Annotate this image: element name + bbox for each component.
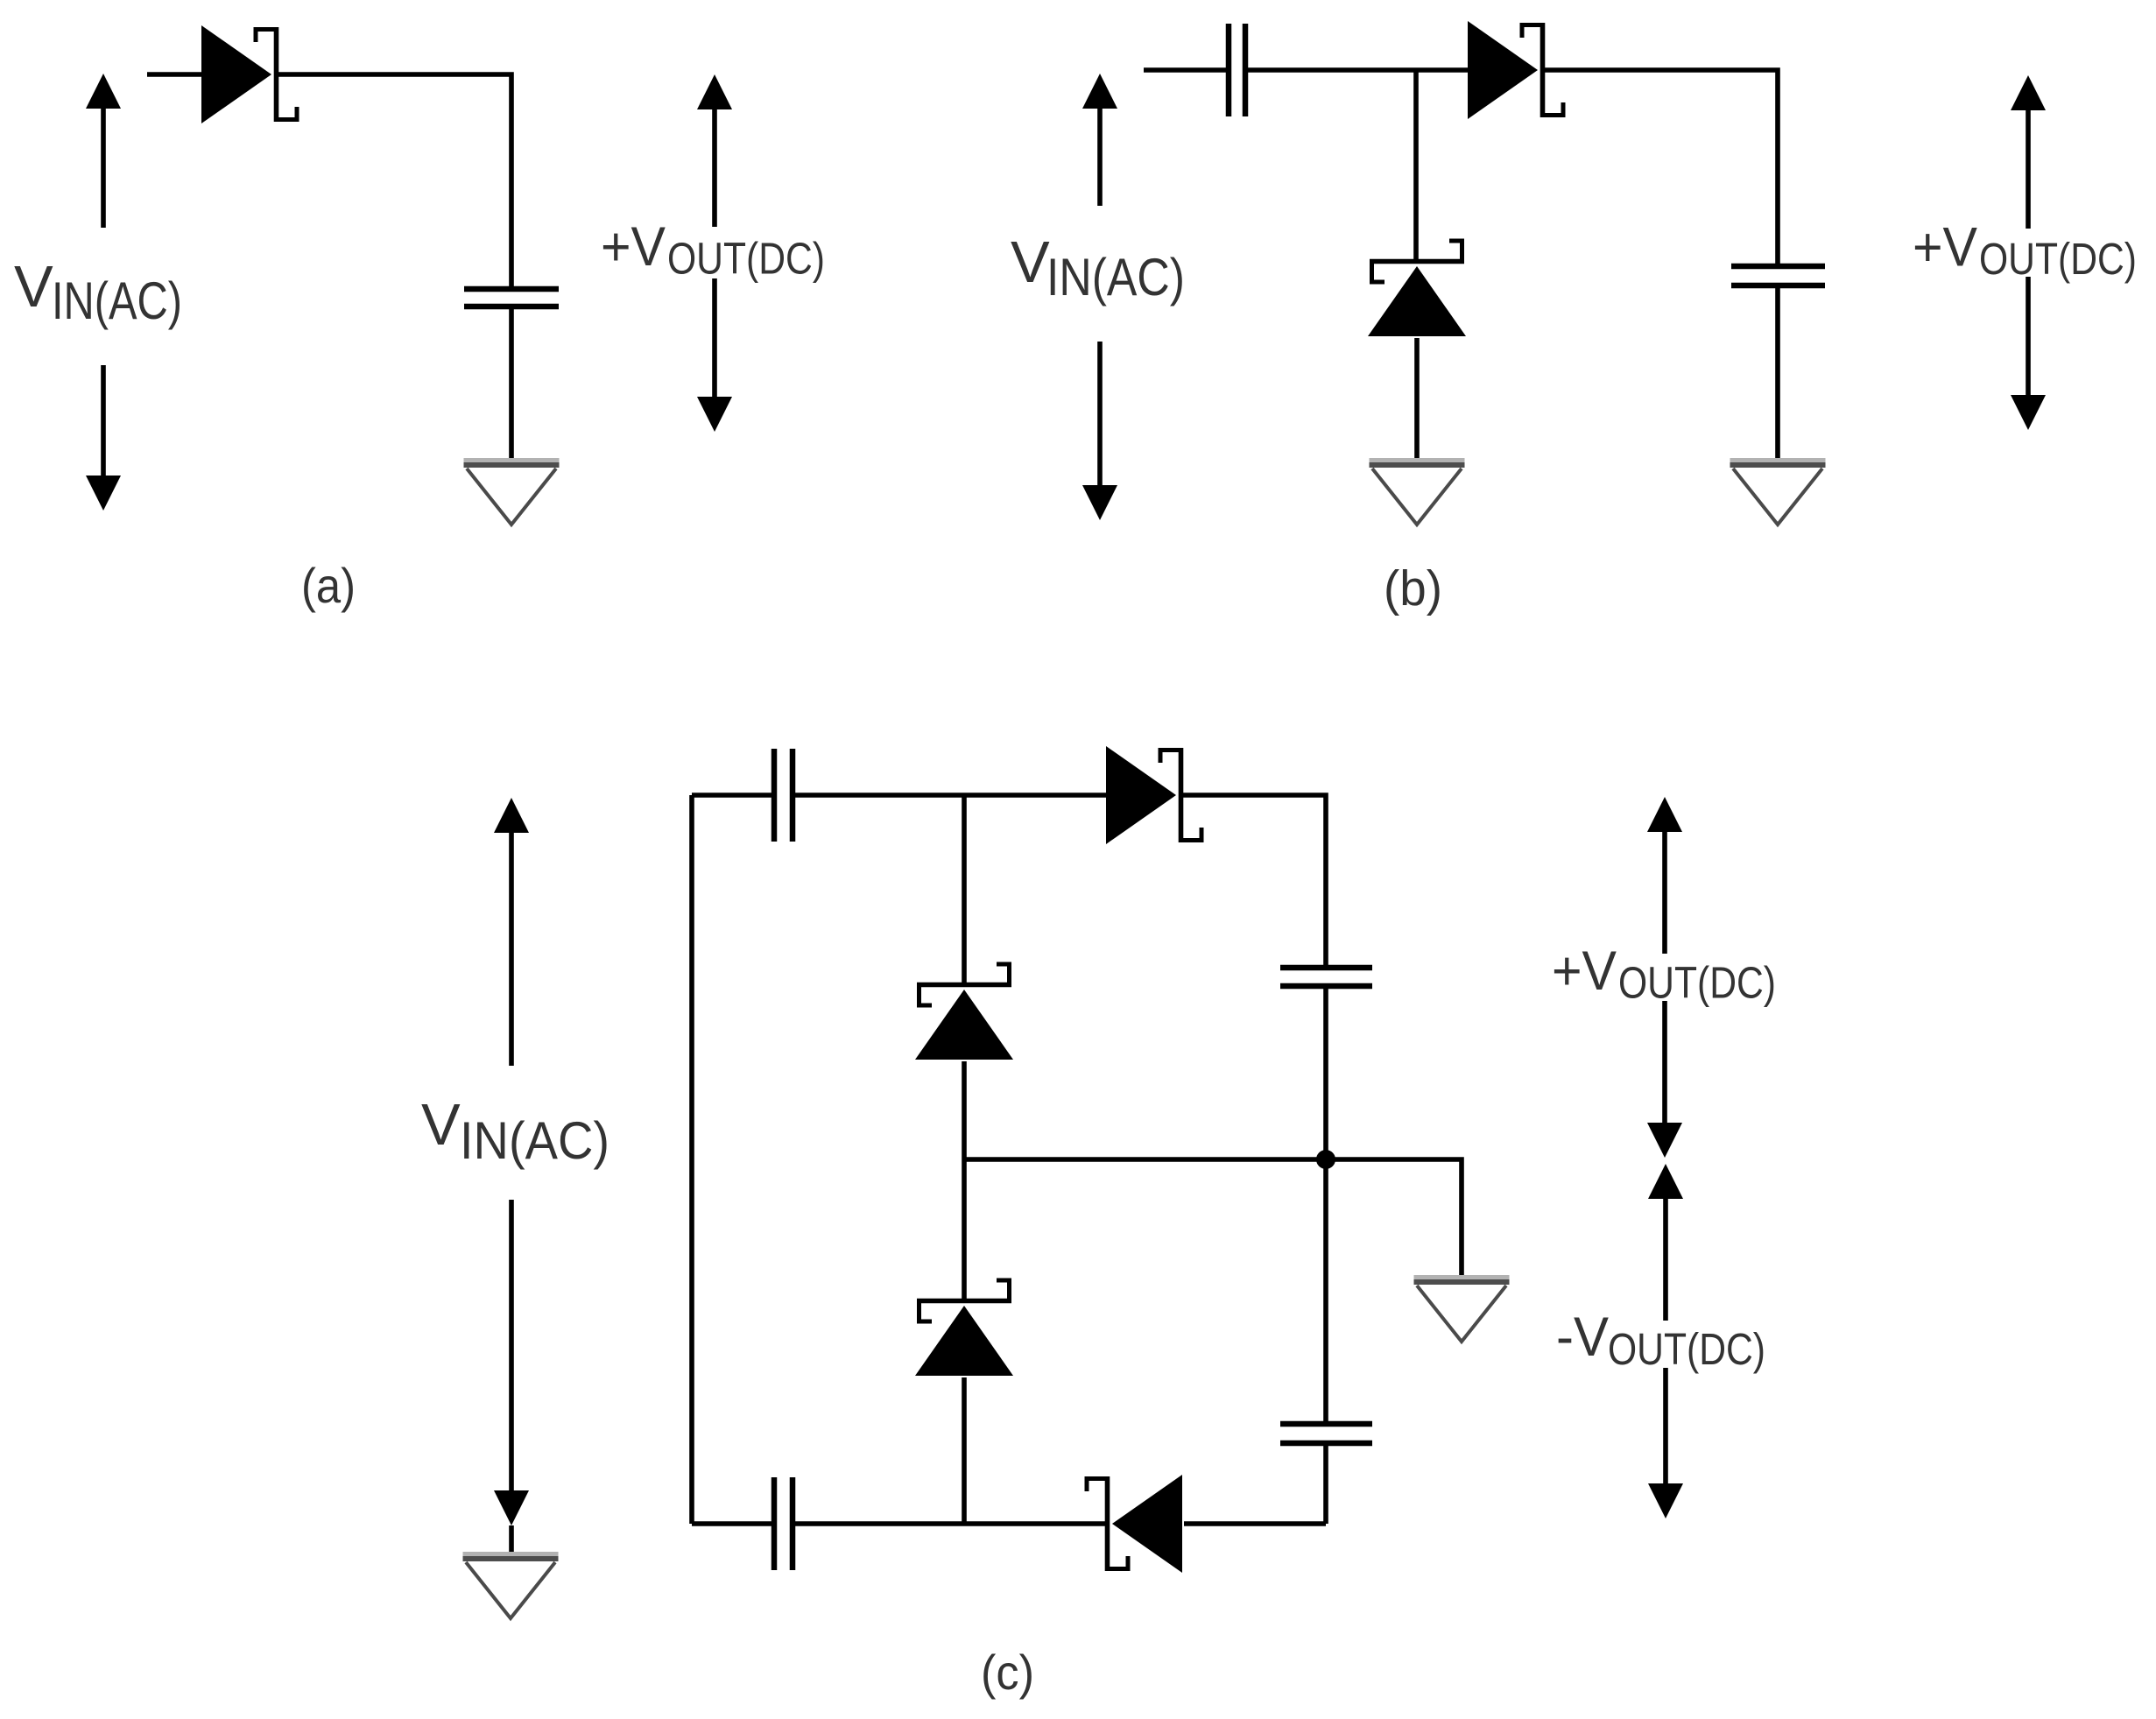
svg-text:OUT(DC): OUT(DC) — [667, 234, 825, 284]
ground symbol mid-right circuit (c) — [1414, 1275, 1510, 1342]
capacitor C1 circuit (a) — [464, 289, 559, 306]
wire left branch circuit (c) — [689, 795, 694, 1524]
svg-text:IN(AC): IN(AC) — [1046, 248, 1185, 306]
svg-text:+V: +V — [1913, 217, 1977, 278]
svg-text:V: V — [421, 1092, 461, 1158]
capacitor C6 (-V output filter) circuit (c) — [1280, 1424, 1372, 1443]
VIN(AC) source arrow circuit (a) — [86, 74, 121, 511]
ground symbol circuit (a) — [464, 458, 560, 525]
ground symbol below D3 circuit (b) — [1370, 458, 1465, 525]
label VIN(AC) circuit (b) — [1011, 229, 1185, 306]
capacitor C5 (+V output filter) circuit (c) — [1280, 968, 1372, 986]
label +VOUT(DC) circuit (c) — [1552, 941, 1776, 1008]
wire D2 cathode to output corner circuit (b) — [1540, 70, 1778, 266]
svg-text:(c): (c) — [981, 1645, 1034, 1700]
svg-text:V: V — [1011, 229, 1050, 295]
wire C7 to D7 cathode circuit (c) — [795, 1521, 1109, 1526]
wire C2 to D2 anode with junction circuit (b) — [1248, 67, 1469, 73]
diode D5 (Schottky, middle upper) circuit (c) — [915, 964, 1013, 1060]
diode D7 (Schottky, bottom series pointing left) circuit (c) — [1087, 1475, 1182, 1573]
wire junction down to D3 circuit (b) — [1413, 70, 1419, 263]
wire top-left segment circuit (c) — [692, 793, 772, 798]
svg-text:IN(AC): IN(AC) — [460, 1111, 609, 1170]
wire D4 cathode to top-right corner circuit (c) — [1179, 795, 1326, 967]
wire D3 anode to ground circuit (b) — [1414, 338, 1420, 459]
VIN(AC) source arrow circuit (b) — [1082, 74, 1117, 520]
diode D2 (Schottky, series) circuit (b) — [1468, 21, 1563, 119]
wire input segment circuit (b) — [1144, 67, 1226, 73]
svg-text:(a): (a) — [301, 558, 356, 613]
capacitor C7 (bottom coupling) circuit (c) — [774, 1477, 793, 1570]
VIN(AC) source arrow circuit (c) — [494, 798, 529, 1552]
diode D4 (Schottky, top series) circuit (c) — [1106, 746, 1201, 844]
diode D1 (Schottky, series) circuit (a) — [201, 25, 297, 123]
wire C5 to node to C6 circuit (c) — [1323, 986, 1328, 1424]
wire mid horizontal to ground corner circuit (c) — [964, 1159, 1462, 1276]
label -VOUT(DC) circuit (c) — [1556, 1307, 1765, 1374]
capacitor C3 (output filter) circuit (b) — [1731, 266, 1825, 285]
-VOUT(DC) arrow circuit (c) — [1648, 1164, 1683, 1518]
ground symbol below C3 circuit (b) — [1730, 458, 1826, 525]
wire C4 to D4 anode circuit (c) — [795, 793, 1106, 798]
svg-text:+V: +V — [601, 216, 666, 278]
+VOUT(DC) arrow circuit (b) — [2011, 75, 2046, 430]
wire C1 to ground circuit (a) — [509, 306, 514, 459]
+VOUT(DC) arrow circuit (c) — [1647, 797, 1682, 1158]
svg-text:OUT(DC): OUT(DC) — [1608, 1324, 1765, 1374]
wire D6 anode to bottom wire circuit (c) — [962, 1377, 967, 1524]
label VIN(AC) circuit (a) — [14, 254, 182, 330]
label VIN(AC) circuit (c) — [421, 1092, 609, 1170]
label +VOUT(DC) circuit (a) — [601, 216, 825, 284]
ground symbol below VIN arrow circuit (c) — [463, 1552, 559, 1618]
label +VOUT(DC) circuit (b) — [1913, 217, 2137, 285]
wire bottom-left segment circuit (c) — [692, 1521, 772, 1526]
capacitor C2 (series coupling) circuit (b) — [1229, 24, 1245, 116]
svg-text:OUT(DC): OUT(DC) — [1618, 958, 1776, 1008]
capacitor C4 (top coupling) circuit (c) — [774, 749, 793, 842]
wire D1 cathode to output corner circuit (a) — [274, 74, 511, 289]
wire C6 to bottom-right corner circuit (c) — [1323, 1443, 1328, 1524]
svg-text:-V: -V — [1556, 1307, 1609, 1368]
svg-text:V: V — [14, 254, 53, 320]
diode D6 (Schottky, middle lower) circuit (c) — [915, 1280, 1013, 1376]
svg-text:(b): (b) — [1384, 560, 1442, 616]
node junction dot circuit (c) — [1316, 1150, 1335, 1169]
diode D3 (Schottky, shunt to ground) circuit (b) — [1368, 241, 1466, 336]
wire input segment circuit (a) — [147, 72, 204, 77]
wire C3 to ground circuit (b) — [1775, 285, 1780, 459]
wire D5 anode to mid junction circuit (c) — [962, 1061, 967, 1302]
svg-text:OUT(DC): OUT(DC) — [1979, 234, 2137, 284]
wire mid vertical top segment circuit (c) — [962, 795, 967, 986]
+VOUT(DC) arrow circuit (a) — [697, 74, 732, 432]
svg-text:IN(AC): IN(AC) — [52, 271, 182, 330]
wire D7 anode to bottom-right corner circuit (c) — [1184, 1521, 1326, 1526]
svg-text:+V: +V — [1552, 941, 1617, 1002]
